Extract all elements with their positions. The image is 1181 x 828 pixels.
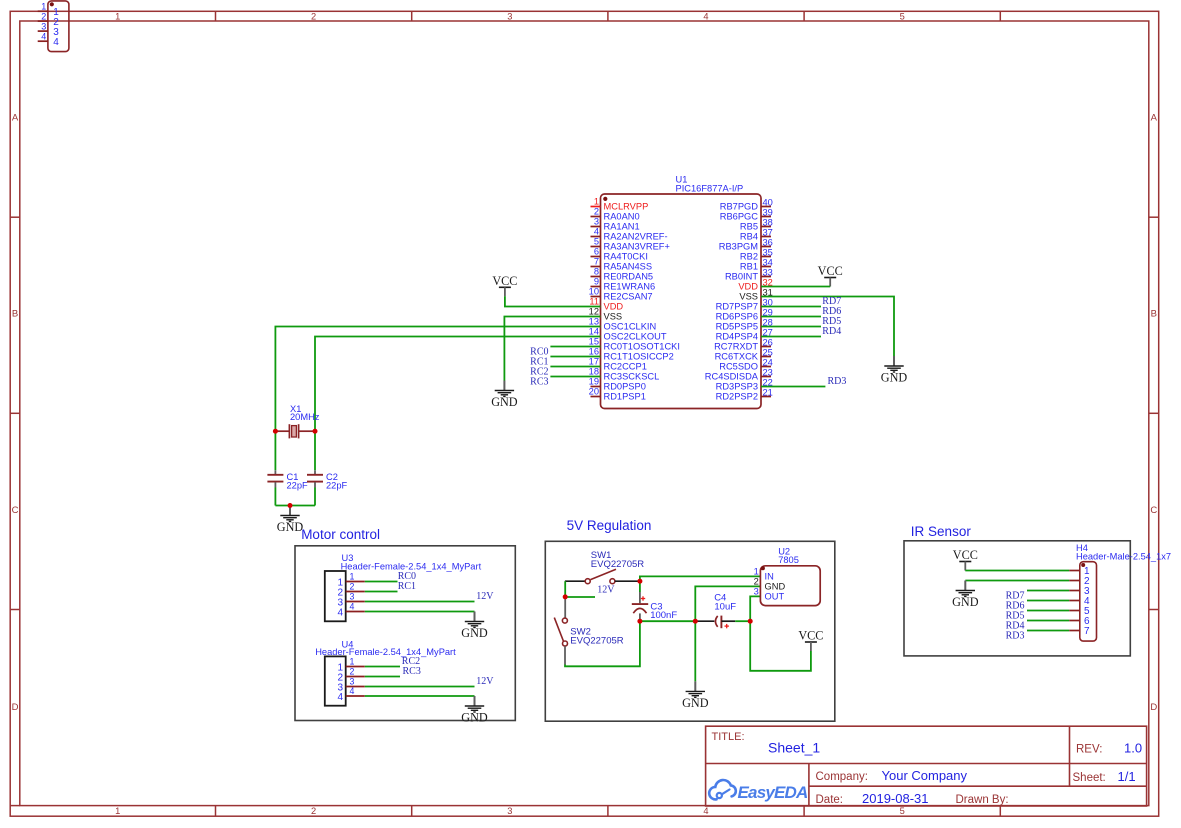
ground (5V regulation) <box>682 681 709 710</box>
svg-text:C: C <box>1150 505 1157 516</box>
U1 pin 19 RD0PSP0 <box>589 377 646 392</box>
wire U4 pin2 net RC3 <box>365 676 400 678</box>
svg-text:Company:: Company: <box>816 771 868 783</box>
svg-text:RC1: RC1 <box>398 581 416 592</box>
frame column labels top <box>115 11 905 21</box>
U1 pin 28 RD5PSP5 <box>716 317 773 331</box>
svg-text:16: 16 <box>589 347 599 357</box>
svg-text:Header-Male-2.54_1x7: Header-Male-2.54_1x7 <box>1076 551 1171 561</box>
U1 pin 15 RC0T1OSOT1CKI <box>589 337 680 352</box>
wire C4 right <box>735 620 750 622</box>
svg-text:2: 2 <box>350 667 355 677</box>
H4 pin 7 <box>1069 626 1090 637</box>
SW2 reference designator label <box>570 626 623 646</box>
svg-text:VDD: VDD <box>738 282 758 292</box>
connector P1 pin 3 <box>38 21 60 38</box>
U4 pin 2 <box>337 667 364 684</box>
wire U1 pin 16 net RC1 <box>550 356 600 358</box>
svg-text:4: 4 <box>337 608 343 619</box>
svg-text:RD0PSP0: RD0PSP0 <box>604 382 646 392</box>
ground (U1 VSS right) <box>881 356 908 385</box>
svg-text:D: D <box>12 702 19 713</box>
svg-text:OSC2CLKOUT: OSC2CLKOUT <box>604 332 667 342</box>
svg-text:RD1PSP1: RD1PSP1 <box>604 392 646 402</box>
svg-text:RA1AN1: RA1AN1 <box>604 222 640 232</box>
U4 reference designator label <box>315 639 456 657</box>
svg-text:VCC: VCC <box>953 548 978 562</box>
connector P1 (1x4 header, top-left) <box>48 1 69 52</box>
U1 pin 32 VDD <box>738 277 772 291</box>
U1 pin 7 RA5AN4SS <box>591 257 653 272</box>
svg-text:3: 3 <box>754 586 759 596</box>
wire U1 pin 29 net RD6 <box>761 316 821 318</box>
EasyEDA logo <box>709 780 808 802</box>
wire U3 pin2 net RC1 <box>365 591 398 593</box>
svg-text:MCLRVPP: MCLRVPP <box>604 202 649 212</box>
svg-text:RD4PSP4: RD4PSP4 <box>716 332 758 342</box>
svg-text:7805: 7805 <box>778 555 799 565</box>
svg-text:RC7RXDT: RC7RXDT <box>714 342 758 352</box>
svg-text:RC6TXCK: RC6TXCK <box>715 352 759 362</box>
wire U2 pin 2 to GND <box>695 586 760 681</box>
ground (U4) <box>461 696 488 725</box>
voltage regulator U2 7805 <box>760 566 820 606</box>
svg-text:24: 24 <box>763 357 773 367</box>
U1 pin 17 RC2CCP1 <box>589 357 647 372</box>
wire C1 down <box>274 488 276 506</box>
junction (crystal left) <box>273 429 278 434</box>
svg-text:RC3SCKSCL: RC3SCKSCL <box>604 372 660 382</box>
ground (crystal caps) <box>277 506 304 535</box>
H4 pin 3 <box>1069 586 1090 597</box>
U1 pin 24 RC5SDO <box>719 357 773 371</box>
title block frame <box>706 726 1147 806</box>
svg-text:1/1: 1/1 <box>1118 769 1136 784</box>
svg-text:12: 12 <box>589 307 599 317</box>
svg-text:Sheet:: Sheet: <box>1073 772 1106 784</box>
svg-text:RA0AN0: RA0AN0 <box>604 212 640 222</box>
svg-text:Drawn By:: Drawn By: <box>956 794 1009 806</box>
svg-text:2019-08-31: 2019-08-31 <box>862 791 929 806</box>
wire SW2 bottom to C3 bottom <box>565 621 640 666</box>
svg-text:5: 5 <box>900 806 905 816</box>
svg-text:RB7PGD: RB7PGD <box>720 202 759 212</box>
svg-text:RE0RDAN5: RE0RDAN5 <box>604 272 654 282</box>
connector H4 Header-Male-2.54_1x7 <box>1080 562 1097 641</box>
U1 pin 21 RD2PSP2 <box>716 387 773 401</box>
svg-text:RA5AN4SS: RA5AN4SS <box>604 262 653 272</box>
svg-text:23: 23 <box>763 367 773 377</box>
U1 pin 23 RC4SDISDA <box>705 367 773 381</box>
svg-text:RD3: RD3 <box>828 376 847 387</box>
wire left vertical (12V rail) <box>564 581 566 597</box>
motor control section box <box>295 546 515 721</box>
U2 pin 1 IN <box>754 566 774 581</box>
svg-text:1: 1 <box>350 572 355 582</box>
svg-text:A: A <box>12 112 19 123</box>
wire C2 down <box>314 488 316 506</box>
U3 reference designator label <box>341 553 482 571</box>
wire U1 pin 28 net RD5 <box>761 326 821 328</box>
U1 pin 36 RB3PGM <box>719 237 773 251</box>
svg-text:3: 3 <box>41 21 46 31</box>
U1 pin 22 RD3PSP3 <box>716 377 773 391</box>
connector P1 pin 2 <box>38 11 60 28</box>
svg-text:VDD: VDD <box>604 302 624 312</box>
C2 value label <box>326 472 348 491</box>
wire U1 pin 30 net RD7 <box>761 306 821 308</box>
wire SW1 junction down to C3 <box>639 581 641 592</box>
svg-text:B: B <box>1151 308 1157 319</box>
wire caps to GND <box>275 505 315 507</box>
connector P1 pin 4 <box>38 31 60 48</box>
svg-text:10uF: 10uF <box>714 601 736 612</box>
ground (IR) <box>952 581 979 610</box>
svg-text:RD3: RD3 <box>1006 631 1025 642</box>
svg-text:RD7PSP7: RD7PSP7 <box>716 302 758 312</box>
svg-text:Motor control: Motor control <box>301 527 380 542</box>
regulation section box <box>545 541 835 721</box>
svg-text:2: 2 <box>41 11 46 21</box>
wire U1 pin 14 to crystal right <box>315 337 601 471</box>
svg-text:20: 20 <box>589 387 599 397</box>
svg-text:EVQ22705R: EVQ22705R <box>591 559 644 570</box>
wire U4 pin3 net 12V <box>365 686 475 688</box>
svg-text:IN: IN <box>765 571 774 581</box>
svg-text:VCC: VCC <box>492 274 517 288</box>
svg-text:GND: GND <box>461 711 488 725</box>
svg-text:EasyEDA: EasyEDA <box>738 783 809 802</box>
U1 pin 2 RA0AN0 <box>591 207 640 222</box>
power VCC <box>492 274 517 297</box>
connector U3 <box>325 571 346 621</box>
frame column labels bottom <box>115 806 905 816</box>
svg-text:RB6PGC: RB6PGC <box>720 212 759 222</box>
U1 pin 11 VDD <box>589 297 623 312</box>
ground (U3) <box>461 612 488 641</box>
wire U1 pin 31 to GND <box>761 297 894 357</box>
wire junction to U2 pin 3 OUT <box>750 596 760 621</box>
svg-text:100nF: 100nF <box>650 610 677 621</box>
SW1 reference designator label <box>591 550 644 570</box>
C3 value label <box>650 602 677 621</box>
svg-text:40: 40 <box>763 197 773 207</box>
junction (crystal right) <box>313 429 318 434</box>
junction (gnd tap) <box>693 619 698 624</box>
wire H4 pin 3 net RD7 <box>1027 590 1069 592</box>
C1 value label <box>287 472 309 491</box>
ground (U1 VSS left) <box>491 381 518 410</box>
C4 value label <box>714 593 736 613</box>
svg-text:RB5: RB5 <box>740 222 758 232</box>
svg-text:12V: 12V <box>476 676 494 687</box>
wire U1 pin 22 net RD3 <box>761 386 825 388</box>
H4 pin 6 <box>1069 616 1090 627</box>
U1 pin 4 RA2AN2VREF- <box>591 227 668 242</box>
U4 pin 3 <box>337 677 364 694</box>
connector U4 <box>325 656 346 705</box>
U1 pin 14 OSC2CLKOUT <box>589 327 667 342</box>
junction (12V tap) <box>563 594 568 599</box>
svg-text:RC2CCP1: RC2CCP1 <box>604 362 647 372</box>
svg-text:RD6PSP6: RD6PSP6 <box>716 312 758 322</box>
svg-text:RE2CSAN7: RE2CSAN7 <box>604 292 653 302</box>
svg-text:3: 3 <box>507 806 512 816</box>
svg-text:5V Regulation: 5V Regulation <box>567 518 652 533</box>
wire U1 pin 12 to GND <box>504 317 600 381</box>
svg-text:4: 4 <box>703 806 708 816</box>
svg-text:RC3: RC3 <box>530 377 548 388</box>
U1 pin 13 OSC1CLKIN <box>589 317 657 332</box>
svg-text:1: 1 <box>754 566 759 576</box>
frame row labels right <box>1150 112 1157 713</box>
U1 pin 18 RC3SCKSCL <box>589 367 660 382</box>
svg-text:RC0T1OSOT1CKI: RC0T1OSOT1CKI <box>604 342 680 352</box>
wire GND to H4 pin 2 <box>965 580 1069 582</box>
U4 pin 4 <box>337 686 364 703</box>
svg-text:Header-Female-2.54_1x4_MyPart: Header-Female-2.54_1x4_MyPart <box>315 647 456 657</box>
U1 reference designator label <box>676 175 744 194</box>
U1 pin 9 RE1WRAN6 <box>591 277 656 292</box>
U1 pin 26 RC7RXDT <box>714 337 773 351</box>
svg-text:3: 3 <box>507 11 512 21</box>
U2 pin 3 OUT <box>754 586 785 601</box>
wire VCC to U1 pin 11 <box>505 296 601 306</box>
svg-text:RC5SDO: RC5SDO <box>719 362 758 372</box>
op-amp U1 (IC PIC16F877A-I/P body) <box>601 194 762 409</box>
U3 pin 4 <box>337 602 364 619</box>
junction (C4 right / OUT) <box>748 619 753 624</box>
svg-text:4: 4 <box>53 37 59 48</box>
IR sensor section box <box>904 541 1130 656</box>
capacitor C2 22pF <box>307 470 323 487</box>
wire U1 pin 15 net RC0 <box>550 346 600 348</box>
U1 pin 31 VSS <box>739 287 772 301</box>
svg-text:4: 4 <box>337 692 343 703</box>
U1 pin 30 RD7PSP7 <box>716 297 773 311</box>
svg-text:37: 37 <box>763 227 773 237</box>
svg-text:EVQ22705R: EVQ22705R <box>570 636 623 647</box>
svg-text:RB4: RB4 <box>740 232 758 242</box>
svg-text:39: 39 <box>763 207 773 217</box>
U1 pin 12 VSS <box>589 307 622 322</box>
svg-text:RD4: RD4 <box>822 326 841 337</box>
svg-text:RC4SDISDA: RC4SDISDA <box>705 372 759 382</box>
svg-text:36: 36 <box>763 237 773 247</box>
U4 pin 1 <box>337 657 364 674</box>
svg-text:19: 19 <box>589 377 599 387</box>
U2 reference designator label <box>778 546 799 565</box>
svg-text:4: 4 <box>41 31 46 41</box>
svg-text:25: 25 <box>763 347 773 357</box>
svg-text:1.0: 1.0 <box>1124 741 1142 756</box>
svg-text:2: 2 <box>311 806 316 816</box>
svg-text:Header-Female-2.54_1x4_MyPart: Header-Female-2.54_1x4_MyPart <box>341 561 482 571</box>
capacitor C1 22pF <box>267 470 283 487</box>
svg-text:OUT: OUT <box>765 591 785 601</box>
wire U3 pin1 net RC0 <box>365 581 398 583</box>
svg-text:TITLE:: TITLE: <box>712 731 745 743</box>
U1 pin 20 RD1PSP1 <box>589 387 646 402</box>
svg-text:RC3: RC3 <box>403 666 421 677</box>
svg-text:12V: 12V <box>476 591 494 602</box>
U1 pin 40 RB7PGD <box>720 197 773 211</box>
H4 pin 1 <box>1069 566 1090 577</box>
svg-text:OSC1CLKIN: OSC1CLKIN <box>604 322 657 332</box>
svg-text:3: 3 <box>350 677 355 687</box>
svg-text:17: 17 <box>589 357 599 367</box>
H4 pin 5 <box>1069 606 1090 617</box>
H4 pin 4 <box>1069 596 1090 607</box>
svg-text:4: 4 <box>350 686 355 696</box>
U1 pin 39 RB6PGC <box>720 207 773 221</box>
U1 pin 33 RB0INT <box>725 267 773 281</box>
svg-text:34: 34 <box>763 257 773 267</box>
wire U1 pin 18 net RC3 <box>550 376 600 378</box>
svg-text:B: B <box>12 308 18 319</box>
svg-text:15: 15 <box>589 337 599 347</box>
wire U1 pin 13 to crystal left <box>275 327 600 471</box>
svg-text:GND: GND <box>277 520 304 534</box>
svg-text:14: 14 <box>589 327 599 337</box>
svg-text:RB1: RB1 <box>740 262 758 272</box>
svg-text:RD2PSP2: RD2PSP2 <box>716 392 758 402</box>
svg-text:C: C <box>12 505 19 516</box>
U1 pin 37 RB4 <box>740 227 773 241</box>
svg-text:Sheet_1: Sheet_1 <box>768 740 820 756</box>
junction (SW1 right) <box>637 579 642 584</box>
svg-text:35: 35 <box>763 247 773 257</box>
svg-text:22pF: 22pF <box>326 480 348 490</box>
svg-text:21: 21 <box>763 387 773 397</box>
U1 pin 10 RE2CSAN7 <box>589 287 653 302</box>
svg-text:RD5PSP5: RD5PSP5 <box>716 322 758 332</box>
power VCC (IR) <box>953 548 978 571</box>
X1 value label <box>290 404 320 422</box>
wire U4 pin1 net RC2 <box>365 666 400 668</box>
svg-text:33: 33 <box>763 267 773 277</box>
switch SW2 EVQ22705R <box>554 597 567 665</box>
svg-text:1: 1 <box>115 806 120 816</box>
svg-text:RE1WRAN6: RE1WRAN6 <box>604 282 656 292</box>
U1 pin 25 RC6TXCK <box>715 347 773 361</box>
svg-text:4: 4 <box>350 602 355 612</box>
svg-text:VSS: VSS <box>604 312 623 322</box>
U1 pin 8 RE0RDAN5 <box>591 267 654 282</box>
svg-text:9: 9 <box>594 277 599 287</box>
wire H4 pin 6 net RD4 <box>1027 620 1069 622</box>
wire U3 pin4 to GND <box>365 611 475 613</box>
svg-text:4: 4 <box>594 227 599 237</box>
wire net 12V <box>565 596 595 598</box>
H4 pin 2 <box>1069 576 1090 587</box>
svg-text:GND: GND <box>491 395 518 409</box>
wire U4 pin4 to GND <box>365 695 475 697</box>
svg-text:2: 2 <box>594 207 599 217</box>
svg-text:Date:: Date: <box>816 794 844 806</box>
U1 pin 38 RB5 <box>740 217 773 231</box>
svg-text:RA3AN3VREF+: RA3AN3VREF+ <box>604 242 670 252</box>
capacitor C3 100nF <box>632 592 648 619</box>
crystal X1 20MHz <box>277 424 314 438</box>
U3 pin 3 <box>337 592 364 609</box>
svg-text:A: A <box>1151 112 1158 123</box>
svg-text:1: 1 <box>350 657 355 667</box>
svg-text:RB3PGM: RB3PGM <box>719 242 758 252</box>
svg-text:5: 5 <box>594 237 599 247</box>
U2 pin 2 GND <box>754 576 786 591</box>
wire VCC to H4 pin 1 <box>965 570 1069 572</box>
svg-text:D: D <box>1150 702 1157 713</box>
svg-text:1: 1 <box>41 1 46 11</box>
svg-text:RB0INT: RB0INT <box>725 272 758 282</box>
svg-text:10: 10 <box>589 287 599 297</box>
svg-text:20MHz: 20MHz <box>290 412 320 422</box>
svg-text:GND: GND <box>881 371 908 385</box>
svg-text:1: 1 <box>115 11 120 21</box>
capacitor C4 10uF <box>695 616 735 629</box>
svg-text:REV:: REV: <box>1076 744 1102 756</box>
svg-text:2: 2 <box>754 576 759 586</box>
svg-text:VCC: VCC <box>818 264 843 278</box>
svg-text:RD3PSP3: RD3PSP3 <box>716 382 758 392</box>
wire U1 pin 17 net RC2 <box>550 366 600 368</box>
wire U3 pin3 net 12V <box>365 601 475 603</box>
U1 pin 5 RA3AN3VREF+ <box>591 237 670 252</box>
U1 pin 3 RA1AN1 <box>591 217 640 232</box>
frame row labels left <box>12 112 19 713</box>
wire H4 pin 5 net RD5 <box>1027 610 1069 612</box>
junction (C3 bottom) <box>637 619 642 624</box>
power VCC <box>818 264 843 287</box>
wire OUT junction to VCC <box>750 621 811 671</box>
svg-text:RB2: RB2 <box>740 252 758 262</box>
svg-text:11: 11 <box>589 297 599 307</box>
svg-text:26: 26 <box>763 337 773 347</box>
svg-text:8: 8 <box>594 267 599 277</box>
svg-text:7: 7 <box>594 257 599 267</box>
svg-text:GND: GND <box>952 595 979 609</box>
U1 pin 35 RB2 <box>740 247 773 261</box>
wire H4 pin 4 net RD6 <box>1027 600 1069 602</box>
svg-text:VSS: VSS <box>739 292 758 302</box>
svg-text:7: 7 <box>1084 626 1090 637</box>
svg-text:3: 3 <box>594 217 599 227</box>
svg-text:RA2AN2VREF-: RA2AN2VREF- <box>604 232 668 242</box>
svg-text:Your Company: Your Company <box>882 768 968 783</box>
svg-text:RA4T0CKI: RA4T0CKI <box>604 252 648 262</box>
U3 pin 2 <box>337 582 364 599</box>
svg-text:4: 4 <box>703 11 708 21</box>
wire C3 to C4 <box>640 620 695 622</box>
svg-text:PIC16F877A-I/P: PIC16F877A-I/P <box>676 184 744 194</box>
svg-text:13: 13 <box>589 317 599 327</box>
svg-text:38: 38 <box>763 217 773 227</box>
U1 pin 29 RD6PSP6 <box>716 307 773 321</box>
U1 pin 6 RA4T0CKI <box>591 247 648 262</box>
U1 pin 27 RD4PSP4 <box>716 327 773 341</box>
U3 pin 1 <box>337 572 364 589</box>
svg-text:12V: 12V <box>597 585 615 596</box>
svg-text:RC1T1OSICCP2: RC1T1OSICCP2 <box>604 352 674 362</box>
wire H4 pin 7 net RD3 <box>1027 630 1069 632</box>
svg-text:5: 5 <box>900 11 905 21</box>
svg-text:2: 2 <box>350 582 355 592</box>
wire SW1 to U2 pin 1 <box>640 576 761 581</box>
U1 pin 1 MCLRVPP <box>591 197 649 212</box>
U1 pin 34 RB1 <box>740 257 773 271</box>
svg-text:22pF: 22pF <box>287 480 309 490</box>
